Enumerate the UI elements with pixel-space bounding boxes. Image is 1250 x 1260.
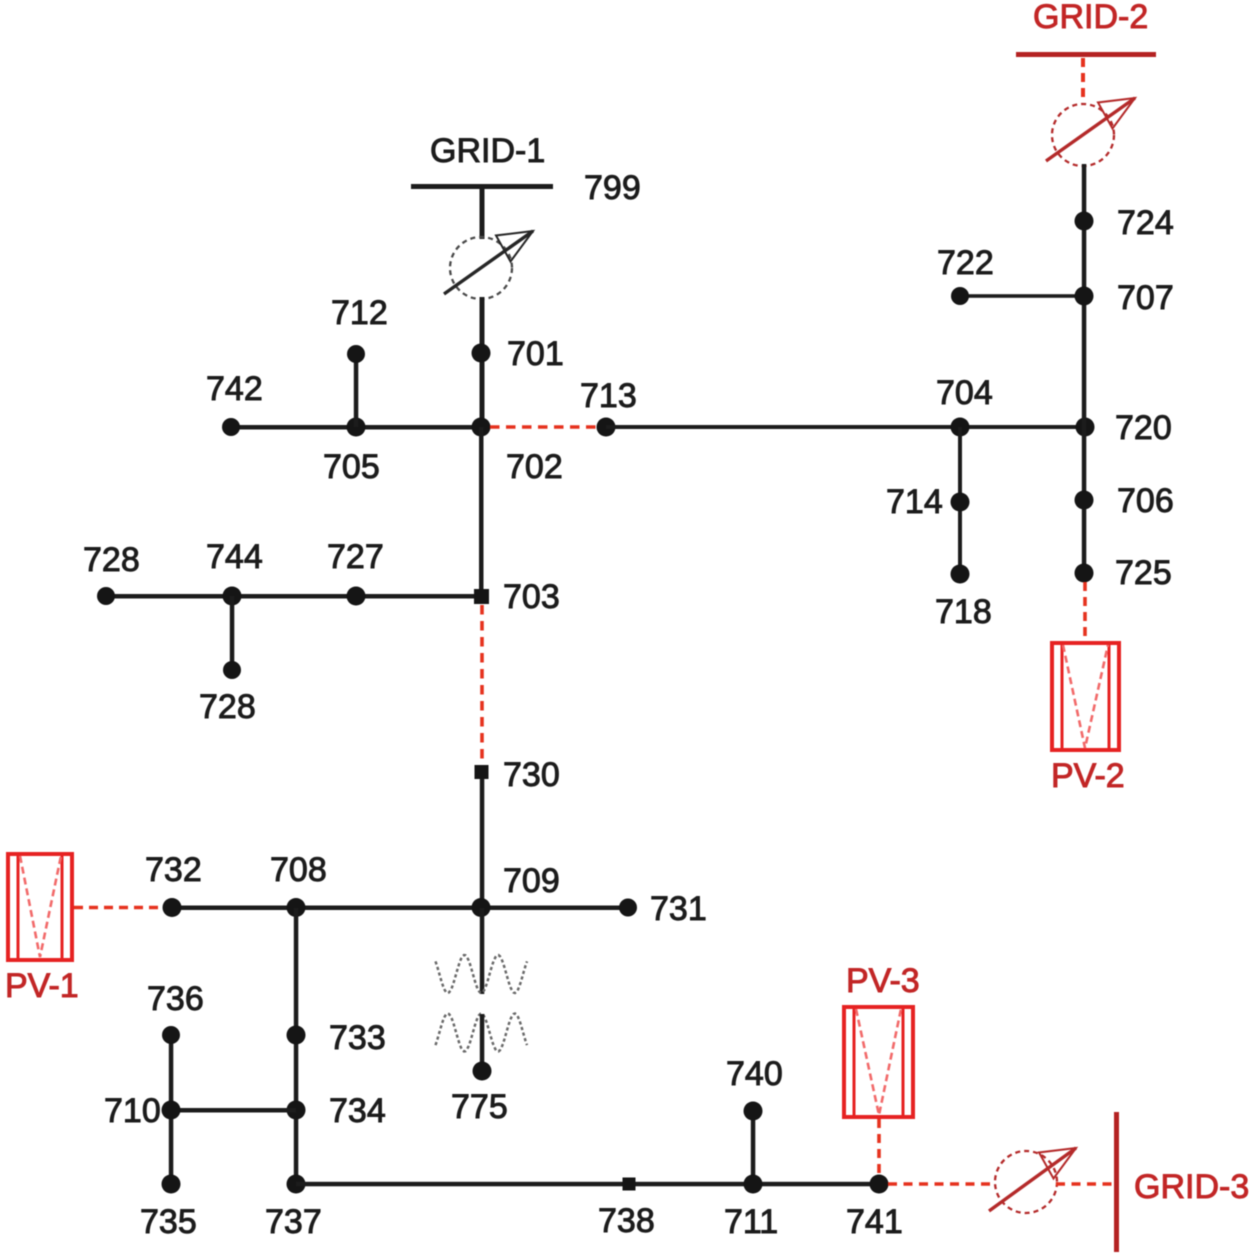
node 706	[1075, 491, 1094, 510]
wire load to node 775	[480, 1014, 485, 1071]
svg-text:722: 722	[937, 244, 994, 282]
wire regulator GRID-2 down to 725	[1082, 164, 1087, 576]
node 731	[619, 899, 637, 917]
node 718	[951, 565, 970, 584]
node 740	[744, 1102, 763, 1121]
node 707 junction	[1075, 287, 1094, 306]
svg-text:734: 734	[329, 1092, 386, 1130]
node 736	[162, 1026, 180, 1044]
svg-text:710: 710	[104, 1092, 161, 1130]
svg-text:706: 706	[1117, 482, 1174, 520]
wire 704 down to 718	[958, 427, 962, 574]
wire 708 down to 737	[294, 908, 299, 1184]
svg-text:730: 730	[503, 756, 560, 794]
wire 730 to 709	[480, 779, 485, 908]
node 722	[951, 287, 969, 305]
svg-text:PV-2: PV-2	[1051, 757, 1125, 795]
svg-text:720: 720	[1115, 409, 1172, 447]
svg-text:737: 737	[265, 1203, 322, 1241]
regulator U-GRID3 circle	[995, 1151, 1057, 1213]
node 733	[287, 1026, 306, 1045]
dashed tie GRID-2 bus to regulator	[1081, 58, 1085, 104]
svg-text:718: 718	[935, 593, 992, 631]
svg-text:GRID-1: GRID-1	[430, 132, 545, 170]
bus GRID-3	[1114, 1112, 1119, 1252]
svg-text:PV-3: PV-3	[846, 962, 920, 1000]
wire 732 to 731	[172, 906, 628, 911]
node 732	[163, 898, 182, 917]
PV-3 converter box	[844, 1007, 913, 1117]
svg-text:702: 702	[506, 448, 563, 486]
node 730 (square)	[475, 765, 489, 779]
svg-text:736: 736	[147, 980, 204, 1018]
wire 742 to 702	[231, 425, 481, 430]
wire 709 down into load symbol	[480, 908, 485, 994]
svg-text:724: 724	[1117, 204, 1174, 242]
PV-1 converter box	[8, 854, 72, 960]
svg-text:711: 711	[724, 1203, 778, 1241]
node 708 junction	[287, 898, 306, 917]
svg-text:735: 735	[140, 1203, 197, 1241]
node 738 (square)	[623, 1178, 636, 1191]
regulator U-GRID3 arrow	[989, 1148, 1076, 1211]
node 775	[473, 1062, 492, 1081]
svg-text:709: 709	[503, 862, 560, 900]
svg-text:707: 707	[1117, 279, 1174, 317]
wire 740 to 711	[751, 1111, 756, 1184]
svg-text:725: 725	[1115, 554, 1172, 592]
regulator U-GRID2 arrow	[1046, 98, 1135, 161]
wire 799 to regulator	[480, 186, 485, 239]
node 712	[347, 345, 365, 363]
load sine wave upper	[436, 955, 528, 993]
node 725	[1075, 564, 1094, 583]
node 724	[1075, 212, 1094, 231]
node 734 junction	[287, 1101, 306, 1120]
regulator U-GRID2 circle	[1052, 104, 1114, 166]
svg-text:GRID-2: GRID-2	[1033, 0, 1148, 36]
switch wire 703 to 730 (open, red dashed)	[480, 605, 484, 764]
svg-text:741: 741	[846, 1203, 903, 1241]
svg-text:775: 775	[451, 1088, 508, 1126]
svg-text:732: 732	[145, 851, 202, 889]
svg-text:738: 738	[598, 1202, 655, 1240]
PV-2 converter box	[1052, 643, 1119, 750]
svg-text:727: 727	[327, 538, 384, 576]
wire 728 744 727 to 703	[106, 594, 481, 599]
node 741	[870, 1175, 889, 1194]
wire 710 to 734	[171, 1108, 296, 1113]
wire 702 down to 703	[479, 427, 484, 596]
bus GRID-2	[1016, 52, 1156, 57]
wire 737 to 741	[296, 1182, 879, 1187]
node 705 junction	[347, 418, 366, 437]
regulator U-GRID1 arrow	[444, 231, 533, 294]
load sine wave lower	[436, 1014, 528, 1052]
svg-text:714: 714	[886, 483, 943, 521]
dashed tie PV-1 to 732	[74, 906, 164, 910]
node 702 junction	[472, 418, 491, 437]
regulator U-GRID1 circle	[450, 237, 512, 299]
wire 722 to 707	[960, 294, 1084, 298]
node 714	[951, 493, 970, 512]
svg-text:740: 740	[726, 1055, 783, 1093]
node 728 (south of 744)	[223, 661, 241, 679]
svg-text:703: 703	[503, 578, 560, 616]
svg-text:713: 713	[580, 377, 637, 415]
svg-text:712: 712	[331, 294, 388, 332]
svg-text:704: 704	[936, 374, 993, 412]
wire 744 down to 728	[230, 596, 235, 670]
node 735	[162, 1175, 181, 1194]
svg-text:799: 799	[584, 169, 641, 207]
node 704 junction	[951, 418, 970, 437]
svg-text:705: 705	[323, 448, 380, 486]
node 710	[162, 1101, 181, 1120]
dashed tie regulator to GRID-3 bus	[1056, 1182, 1114, 1186]
node 727	[347, 587, 366, 606]
svg-text:701: 701	[507, 335, 564, 373]
wire 712 to 705	[354, 354, 359, 427]
node 709 junction	[472, 898, 491, 917]
svg-text:731: 731	[650, 890, 707, 928]
svg-text:733: 733	[329, 1019, 386, 1057]
svg-text:708: 708	[270, 851, 327, 889]
dashed tie 741 to GRID-3 (left of regulator)	[888, 1182, 996, 1186]
switch wire 702 to 713 (open, red dashed)	[490, 425, 597, 429]
wire 736 down to 735	[169, 1035, 174, 1184]
node 701	[472, 344, 491, 363]
node 703 junction (square)	[474, 589, 489, 604]
svg-text:728: 728	[83, 541, 140, 579]
node 742	[222, 418, 240, 436]
wire 713 to 704 to 720	[606, 425, 1085, 429]
node 744 junction	[223, 587, 242, 606]
node 711	[744, 1175, 763, 1194]
svg-text:728: 728	[199, 688, 256, 726]
dashed tie PV-3 to 741	[877, 1119, 881, 1176]
dashed tie 725 to PV-2	[1083, 582, 1087, 641]
node 713	[597, 418, 616, 437]
svg-text:744: 744	[206, 538, 263, 576]
node 737 junction	[287, 1175, 306, 1194]
node 728 (west)	[97, 587, 115, 605]
svg-text:GRID-3: GRID-3	[1134, 1168, 1249, 1206]
node 720 junction	[1076, 418, 1095, 437]
wire regulator to node 702	[480, 297, 485, 429]
svg-text:742: 742	[206, 370, 263, 408]
svg-text:PV-1: PV-1	[5, 967, 79, 1005]
bus GRID-1 (node 799)	[411, 184, 553, 189]
